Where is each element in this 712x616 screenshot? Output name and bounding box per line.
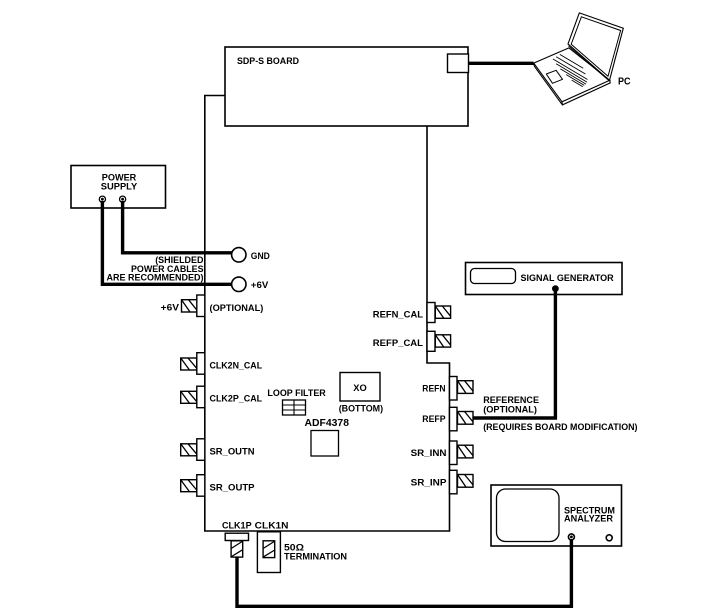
svg-text:CLK1P: CLK1P: [222, 521, 252, 532]
svg-text:XO: XO: [353, 383, 367, 394]
svg-text:LOOP FILTER: LOOP FILTER: [267, 388, 326, 399]
svg-text:SUPPLY: SUPPLY: [101, 182, 138, 193]
crystal oscillator XO: [339, 373, 383, 415]
svg-text:(OPTIONAL): (OPTIONAL): [210, 303, 264, 314]
connector SR_OUTN: [181, 439, 255, 461]
svg-text:(OPTIONAL): (OPTIONAL): [483, 405, 537, 416]
wire +6V: [102, 201, 231, 284]
SDP-S board: [225, 47, 468, 126]
connector +6V (optional): [161, 295, 264, 317]
connector SR_INP: [411, 470, 473, 494]
connector CLK2N_CAL: [181, 353, 263, 375]
svg-text:REFP_CAL: REFP_CAL: [373, 338, 423, 349]
svg-text:ADF4378: ADF4378: [305, 417, 350, 429]
svg-text:SIGNAL GENERATOR: SIGNAL GENERATOR: [521, 273, 614, 284]
svg-text:SR_INP: SR_INP: [411, 478, 448, 489]
spectrum analyzer: [491, 485, 622, 546]
IC ADF4378: [305, 417, 350, 456]
svg-text:SR_OUTN: SR_OUTN: [210, 446, 255, 457]
connector REFN: [422, 377, 473, 401]
svg-text:+6V: +6V: [251, 280, 269, 291]
svg-text:REFN: REFN: [422, 383, 445, 394]
svg-text:ARE RECOMMENDED): ARE RECOMMENDED): [107, 273, 204, 284]
svg-text:PC: PC: [618, 77, 631, 88]
wire signal generator to REFP: [474, 285, 559, 418]
note shielded cables: [107, 255, 204, 283]
test point GND: [232, 248, 270, 262]
connector REFP: [422, 407, 473, 431]
svg-text:CLK2P_CAL: CLK2P_CAL: [210, 394, 263, 405]
svg-text:(REQUIRES BOARD MODIFICATION): (REQUIRES BOARD MODIFICATION): [483, 422, 637, 433]
wire USB to PC: [469, 62, 534, 65]
loop filter: [267, 388, 326, 415]
svg-text:REFN_CAL: REFN_CAL: [373, 310, 423, 321]
svg-text:+6V: +6V: [161, 302, 180, 313]
connector CLK1N with 50 ohm termination: [255, 521, 347, 573]
PC laptop: [534, 13, 631, 105]
svg-text:CLK2N_CAL: CLK2N_CAL: [210, 361, 263, 372]
wire GND: [123, 201, 232, 253]
svg-text:SDP-S BOARD: SDP-S BOARD: [237, 56, 299, 67]
svg-text:SR_OUTP: SR_OUTP: [210, 483, 256, 494]
svg-text:REFP: REFP: [422, 414, 446, 425]
USB connector: [448, 54, 469, 73]
connector SR_OUTP: [181, 475, 255, 497]
connector REFN_CAL: [373, 303, 451, 323]
wire CLK1P to spectrum analyzer: [237, 534, 574, 606]
svg-text:CLK1N: CLK1N: [255, 521, 289, 532]
note reference optional: [483, 395, 637, 433]
power supply: [71, 166, 166, 209]
connector REFP_CAL: [373, 331, 451, 351]
main eval board outline: [205, 96, 450, 532]
connector CLK2P_CAL: [181, 386, 263, 408]
svg-text:GND: GND: [251, 251, 270, 262]
connector SR_INN: [411, 441, 473, 465]
svg-text:SR_INN: SR_INN: [411, 448, 447, 459]
signal generator: [466, 263, 623, 295]
test point +6V: [232, 277, 269, 291]
svg-text:ANALYZER: ANALYZER: [564, 514, 613, 525]
svg-text:TERMINATION: TERMINATION: [284, 552, 347, 563]
svg-text:(BOTTOM): (BOTTOM): [339, 403, 383, 414]
connector CLK1P: [222, 521, 252, 558]
